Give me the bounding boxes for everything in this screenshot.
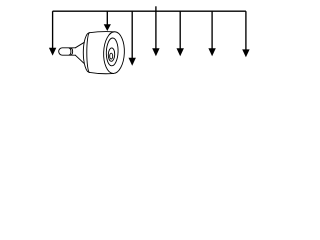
arrow A1 (left end drop) [49,11,56,55]
clip-art: face outer ellipse [103,31,125,73]
clip-art: body top edge [90,32,114,33]
arrow A6 [208,11,215,56]
wire: inlet stub above node at x=156 [155,6,157,11]
clip-art roller/nozzle object [59,31,125,73]
arrow A5 [177,11,184,56]
clip-art: left rim outer arc [83,33,89,73]
clip-art: spiral ring 2 [108,48,115,62]
clip-art: ferrule band arc 2 [71,48,73,55]
clip-art: body bottom edge [90,72,114,73]
clip-art: cone top edge [75,42,84,48]
arrow A4 (drop at inlet node) [152,11,159,56]
arrow A2 (drop onto roller clip-art) [104,11,111,31]
arrow A3 (long drop right of clip-art) [129,11,136,65]
arrow A7 (right end drop) [242,11,249,57]
clip-art: ferrule band arc 1 [69,48,71,55]
clip-art: spiral ring 3 (innermost) [110,53,113,59]
clip-art: cone bottom edge [75,55,84,63]
wire: manifold header line [53,10,246,12]
clip-art: spiral ring 1 [106,38,119,66]
clip-art: left rim inner arc [87,33,90,73]
clip-art: capsule (small cylinder, left) [59,48,76,55]
